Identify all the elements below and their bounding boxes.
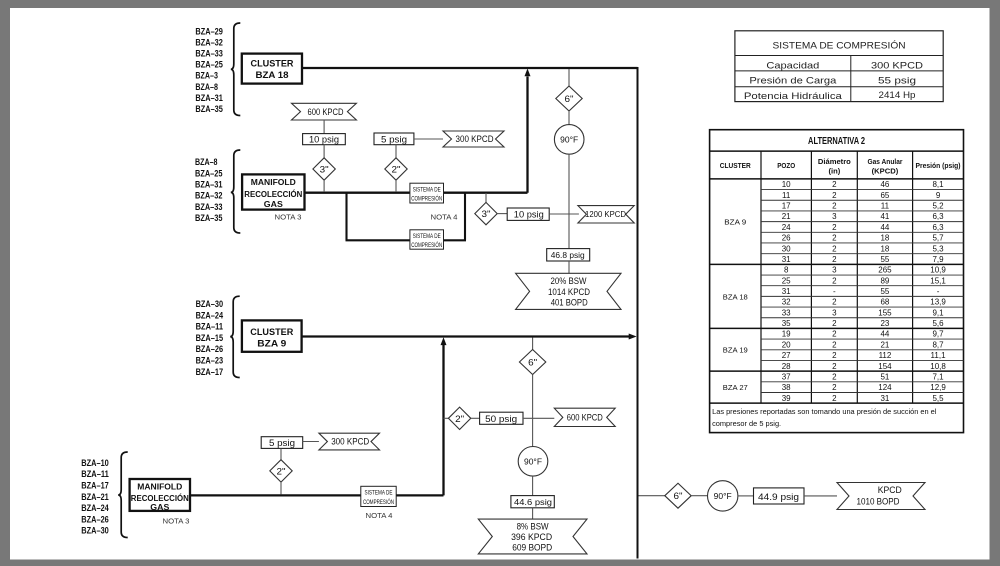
svg-text:32: 32 xyxy=(782,298,791,307)
svg-text:MANIFOLD: MANIFOLD xyxy=(137,482,182,492)
svg-text:44: 44 xyxy=(880,330,889,339)
svg-text:POZO: POZO xyxy=(777,161,795,170)
valve diamond 2 inch (bottom manifold) xyxy=(270,460,292,482)
svg-text:SISTEMA DE COMPRESIÓN: SISTEMA DE COMPRESIÓN xyxy=(773,41,906,52)
brace for well list BZA 18 xyxy=(231,23,241,116)
svg-text:11,1: 11,1 xyxy=(931,351,947,360)
svg-text:24: 24 xyxy=(782,223,791,232)
svg-text:BZA 9: BZA 9 xyxy=(724,218,746,227)
svg-text:BZA–35: BZA–35 xyxy=(195,104,223,115)
svg-text:2: 2 xyxy=(832,319,837,328)
svg-text:44: 44 xyxy=(880,223,889,232)
valve diamond 6 inch (top train) xyxy=(556,86,582,111)
svg-text:2414 Hp: 2414 Hp xyxy=(879,90,916,101)
svg-text:BZA–8: BZA–8 xyxy=(195,157,218,168)
label NOTA 3 under manifold box 1 xyxy=(275,213,302,222)
svg-text:KPCD: KPCD xyxy=(878,485,902,495)
svg-text:2: 2 xyxy=(832,276,837,285)
svg-text:31: 31 xyxy=(782,255,791,264)
svg-text:44.6 psig: 44.6 psig xyxy=(514,497,552,507)
wire: 5 psig box to 2in valve (bottom) xyxy=(280,448,282,459)
svg-text:BZA–3: BZA–3 xyxy=(195,71,218,82)
valve diamond 3 inch (meter run) xyxy=(475,202,497,224)
brace for well list BZA 9 xyxy=(230,296,240,377)
svg-text:BZA–30: BZA–30 xyxy=(196,299,224,310)
svg-text:3: 3 xyxy=(832,266,837,275)
svg-text:CLUSTER: CLUSTER xyxy=(251,58,294,68)
svg-text:50 psig: 50 psig xyxy=(485,414,517,424)
svg-text:600 KPCD: 600 KPCD xyxy=(308,107,344,117)
svg-text:2: 2 xyxy=(832,202,837,211)
svg-text:NOTA 4: NOTA 4 xyxy=(431,212,458,221)
svg-text:5 psig: 5 psig xyxy=(269,438,295,448)
svg-text:2: 2 xyxy=(832,330,837,339)
wire: 2in valve to 50 psig box xyxy=(471,417,480,419)
well list for cluster BZA 18 xyxy=(195,26,223,115)
svg-text:10,9: 10,9 xyxy=(930,266,946,275)
flag: 600 KPCD (bottom) xyxy=(554,408,615,426)
wire: 5 psig box to 300 KPCD flag (bottom) xyxy=(303,441,319,443)
svg-text:401 BOPD: 401 BOPD xyxy=(551,298,588,308)
svg-text:BZA–17: BZA–17 xyxy=(196,367,224,378)
wire: cluster BZA 18 output header xyxy=(302,67,638,69)
svg-text:9,1: 9,1 xyxy=(932,308,944,317)
svg-text:15,1: 15,1 xyxy=(930,276,946,285)
wire: 2in valve to manifold 1 line xyxy=(395,180,397,192)
svg-text:18: 18 xyxy=(880,244,889,253)
well list for manifold recoleccion gas (bottom) xyxy=(81,458,109,537)
svg-text:BZA 19: BZA 19 xyxy=(723,346,748,355)
wire: 600 KPCD flag to 10 psig box xyxy=(323,120,325,134)
svg-text:7,9: 7,9 xyxy=(932,255,944,264)
svg-text:31: 31 xyxy=(782,287,791,296)
wire: 50 psig box to 600 KPCD flag (crosses train) xyxy=(523,417,554,419)
svg-text:SISTEMA DE: SISTEMA DE xyxy=(365,490,393,497)
svg-text:396 KPCD: 396 KPCD xyxy=(511,532,552,542)
svg-text:21: 21 xyxy=(880,340,889,349)
wire: manifold 2 riser to cluster BZA 9 line with arrow xyxy=(441,337,447,495)
svg-text:55 psig: 55 psig xyxy=(878,76,916,87)
svg-text:BZA–8: BZA–8 xyxy=(195,82,218,93)
svg-text:-: - xyxy=(937,287,940,296)
svg-text:BZA–23: BZA–23 xyxy=(196,356,224,367)
svg-text:5,7: 5,7 xyxy=(932,234,944,243)
cluster box BZA 18 xyxy=(242,54,302,84)
svg-text:COMPRESIÓN: COMPRESIÓN xyxy=(411,194,442,203)
svg-text:31: 31 xyxy=(880,394,889,403)
wire: 6in valve to thermometer (outlet) xyxy=(691,495,707,497)
svg-text:Presión de Carga: Presión de Carga xyxy=(749,76,837,87)
svg-text:11: 11 xyxy=(782,191,791,200)
svg-text:90°F: 90°F xyxy=(524,457,542,467)
wire: manifold 1 line to 3in meter xyxy=(485,193,487,203)
svg-text:BZA–26: BZA–26 xyxy=(81,514,109,525)
svg-text:3: 3 xyxy=(832,212,837,221)
svg-text:BZA–25: BZA–25 xyxy=(195,168,223,179)
svg-text:BZA–17: BZA–17 xyxy=(81,481,109,492)
svg-text:10: 10 xyxy=(782,180,791,189)
svg-text:BZA–30: BZA–30 xyxy=(81,526,109,537)
svg-text:5,6: 5,6 xyxy=(932,319,944,328)
svg-text:2: 2 xyxy=(832,372,837,381)
svg-text:90°F: 90°F xyxy=(714,491,732,501)
wire: header to 6in valve (top train) xyxy=(568,69,570,86)
svg-text:20% BSW: 20% BSW xyxy=(551,276,588,286)
svg-text:BZA–11: BZA–11 xyxy=(196,322,224,333)
svg-text:68: 68 xyxy=(880,298,889,307)
svg-text:BZA–32: BZA–32 xyxy=(195,37,223,48)
svg-text:2: 2 xyxy=(832,180,837,189)
svg-text:GAS: GAS xyxy=(150,502,169,512)
svg-text:COMPRESIÓN: COMPRESIÓN xyxy=(411,240,442,249)
svg-text:-: - xyxy=(833,287,836,296)
svg-text:19: 19 xyxy=(782,330,791,339)
svg-text:3": 3" xyxy=(320,165,329,175)
cluster box BZA 9 xyxy=(242,320,302,351)
svg-text:10 psig: 10 psig xyxy=(309,135,339,145)
manifold box 2: MANIFOLD RECOLECCION GAS xyxy=(130,479,190,512)
svg-text:9,7: 9,7 xyxy=(932,330,944,339)
banner: 8% BSW 396 KPCD 609 BOPD xyxy=(478,519,587,554)
svg-text:NOTA 3: NOTA 3 xyxy=(163,516,190,525)
svg-text:38: 38 xyxy=(782,383,791,392)
svg-text:46.8 psig: 46.8 psig xyxy=(551,250,585,260)
svg-text:2: 2 xyxy=(832,223,837,232)
svg-text:BZA–33: BZA–33 xyxy=(195,202,223,213)
svg-text:8% BSW: 8% BSW xyxy=(517,522,550,532)
gauge box: 44.9 psig xyxy=(754,488,805,504)
svg-text:154: 154 xyxy=(878,362,892,371)
svg-text:89: 89 xyxy=(880,276,889,285)
wire: 2in valve to manifold 2 line xyxy=(280,482,282,494)
gauge box: 10 psig (meter run) xyxy=(507,208,549,220)
flag: 300 KPCD (bottom) xyxy=(319,433,380,450)
wire: 10 psig box to 1200 KPCD flag xyxy=(549,213,579,215)
svg-text:55: 55 xyxy=(880,255,889,264)
well list for cluster BZA 9 xyxy=(196,299,224,378)
wire: manifold 2 discharge line xyxy=(190,494,444,496)
svg-text:12,9: 12,9 xyxy=(930,383,946,392)
svg-text:Presión (psig): Presión (psig) xyxy=(916,161,961,170)
wire: thermometer down to 46.8 psig box xyxy=(568,154,570,248)
svg-text:2: 2 xyxy=(832,383,837,392)
svg-text:BZA–35: BZA–35 xyxy=(195,213,223,224)
svg-text:BZA 18: BZA 18 xyxy=(256,70,289,80)
svg-text:35: 35 xyxy=(782,319,791,328)
svg-text:CLUSTER: CLUSTER xyxy=(720,161,751,170)
wire: 10 psig box to 3in valve xyxy=(323,145,325,158)
wire: 44.9 psig box to outlet banner xyxy=(804,495,837,497)
svg-text:10 psig: 10 psig xyxy=(514,210,544,220)
svg-text:13,9: 13,9 xyxy=(930,298,946,307)
svg-text:124: 124 xyxy=(878,383,892,392)
gauge box: 44.6 psig xyxy=(511,496,554,508)
svg-text:11: 11 xyxy=(881,202,890,211)
svg-text:9: 9 xyxy=(936,191,941,200)
svg-text:CLUSTER: CLUSTER xyxy=(250,327,293,337)
valve diamond 2 inch (top) xyxy=(385,158,407,180)
svg-text:BZA–10: BZA–10 xyxy=(81,458,109,469)
svg-text:6": 6" xyxy=(674,491,683,501)
svg-text:MANIFOLD: MANIFOLD xyxy=(251,177,296,187)
svg-text:BZA–33: BZA–33 xyxy=(195,49,223,60)
svg-text:46: 46 xyxy=(880,180,889,189)
svg-text:SISTEMA DE: SISTEMA DE xyxy=(413,233,441,240)
banner: 20% BSW 1014 KPCD 401 BOPD xyxy=(516,273,621,309)
svg-text:27: 27 xyxy=(782,351,791,360)
svg-text:5,3: 5,3 xyxy=(932,244,944,253)
svg-text:90°F: 90°F xyxy=(560,135,578,145)
gauge box: 50 psig xyxy=(480,412,523,424)
wire: compression loop below manifold 1 xyxy=(346,193,467,241)
svg-text:55: 55 xyxy=(880,287,889,296)
svg-text:BZA–31: BZA–31 xyxy=(195,180,223,191)
svg-text:6": 6" xyxy=(528,358,537,368)
thermometer circle 90F (outlet) xyxy=(708,481,738,511)
svg-text:2: 2 xyxy=(832,234,837,243)
label NOTA 4 (top) xyxy=(431,212,458,221)
svg-text:8: 8 xyxy=(784,266,789,275)
wire: main vertical collector line xyxy=(637,67,639,559)
gauge box: 46.8 psig xyxy=(547,249,590,261)
thermometer circle 90F (top train) xyxy=(554,125,584,155)
svg-text:600 KPCD: 600 KPCD xyxy=(567,413,603,423)
wire: collector to 6in valve (outlet train) xyxy=(639,495,666,497)
svg-text:1014 KPCD: 1014 KPCD xyxy=(548,287,590,297)
flag: 300 KPCD (top) xyxy=(443,131,504,147)
svg-text:20: 20 xyxy=(782,340,791,349)
flag: 600 KPCD (top) xyxy=(292,103,357,120)
svg-text:Gas Anular: Gas Anular xyxy=(867,157,902,166)
svg-text:BZA–29: BZA–29 xyxy=(195,26,223,37)
svg-text:Capacidad: Capacidad xyxy=(766,60,819,71)
svg-text:300 KPCD: 300 KPCD xyxy=(871,60,923,71)
svg-text:NOTA 3: NOTA 3 xyxy=(275,213,302,222)
svg-text:300 KPCD: 300 KPCD xyxy=(456,134,494,144)
wire: 6in valve down to thermometer (mid train) xyxy=(532,375,534,447)
gauge box: 5 psig (top) xyxy=(374,133,414,145)
flag: 1200 KPCD xyxy=(578,206,634,223)
svg-text:BZA–31: BZA–31 xyxy=(195,93,223,104)
wire: 5 psig box to 300 KPCD flag xyxy=(414,138,443,140)
box: sistema de compresion 2 xyxy=(410,230,444,249)
wire: cluster BZA 9 line to 6in valve xyxy=(532,338,534,351)
valve diamond 3 inch (top) xyxy=(313,158,335,180)
svg-text:SISTEMA DE: SISTEMA DE xyxy=(413,186,441,193)
label NOTA 4 (bottom) xyxy=(366,511,393,520)
svg-text:37: 37 xyxy=(782,372,791,381)
svg-text:BZA–21: BZA–21 xyxy=(81,492,109,503)
svg-text:2: 2 xyxy=(832,191,837,200)
svg-text:6": 6" xyxy=(565,94,574,104)
wire: thermometer to 44.9 psig box xyxy=(738,495,754,497)
svg-text:2: 2 xyxy=(832,255,837,264)
svg-text:300 KPCD: 300 KPCD xyxy=(331,437,369,447)
svg-text:GAS: GAS xyxy=(264,199,283,209)
svg-text:Potencia Hidráulica: Potencia Hidráulica xyxy=(744,91,843,102)
svg-text:44.9 psig: 44.9 psig xyxy=(758,492,799,502)
svg-text:2": 2" xyxy=(277,466,286,476)
svg-text:RECOLECCIÓN: RECOLECCIÓN xyxy=(244,188,302,199)
svg-text:BZA–15: BZA–15 xyxy=(196,333,224,344)
svg-text:COMPRESIÓN: COMPRESIÓN xyxy=(363,497,394,506)
wire: 5 psig box to 2in valve xyxy=(395,145,397,158)
svg-text:(KPCD): (KPCD) xyxy=(872,167,899,176)
svg-text:NOTA 4: NOTA 4 xyxy=(366,511,393,520)
table: SISTEMA DE COMPRESION summary xyxy=(735,31,943,102)
svg-text:(in): (in) xyxy=(828,167,840,176)
svg-text:2: 2 xyxy=(832,351,837,360)
brace for manifold well list (bottom) xyxy=(118,452,128,538)
wire: 3in valve to manifold 1 line xyxy=(323,180,325,192)
svg-text:Diámetro: Diámetro xyxy=(818,157,851,166)
svg-text:2: 2 xyxy=(832,394,837,403)
svg-text:5,2: 5,2 xyxy=(932,202,944,211)
svg-text:2": 2" xyxy=(392,165,401,175)
svg-text:28: 28 xyxy=(782,362,791,371)
svg-text:2": 2" xyxy=(455,414,464,424)
wire: 6in valve to thermometer xyxy=(568,111,570,125)
well list for manifold recoleccion gas (top) xyxy=(195,157,223,224)
svg-text:2: 2 xyxy=(832,298,837,307)
wire: manifold 1 riser to header with arrow xyxy=(525,69,531,193)
svg-text:Las presiones reportadas son t: Las presiones reportadas son tomando una… xyxy=(712,407,937,416)
svg-text:8,1: 8,1 xyxy=(932,180,944,189)
svg-text:51: 51 xyxy=(880,372,889,381)
svg-text:112: 112 xyxy=(879,351,892,360)
gauge box: 5 psig (bottom) xyxy=(261,437,303,449)
manifold box 1: MANIFOLD RECOLECCION GAS xyxy=(242,174,304,209)
svg-text:2: 2 xyxy=(832,244,837,253)
svg-text:10,8: 10,8 xyxy=(930,362,946,371)
wire: cluster BZA 9 output with arrow into collector xyxy=(302,334,637,340)
svg-text:BZA–24: BZA–24 xyxy=(81,503,109,514)
svg-text:BZA 18: BZA 18 xyxy=(723,292,748,301)
svg-text:BZA–26: BZA–26 xyxy=(196,344,224,355)
svg-text:BZA 9: BZA 9 xyxy=(257,338,286,348)
box: sistema de compresion 1 xyxy=(410,183,444,203)
svg-text:41: 41 xyxy=(880,212,889,221)
banner: KPCD 1010 BOPD (outlet) xyxy=(837,483,925,510)
svg-text:23: 23 xyxy=(880,319,889,328)
svg-text:39: 39 xyxy=(782,394,791,403)
wire: manifold 1 discharge line xyxy=(305,192,528,194)
wire: riser to 2in valve (mid branch) xyxy=(444,417,449,419)
svg-text:25: 25 xyxy=(782,276,791,285)
svg-text:17: 17 xyxy=(782,202,791,211)
svg-text:65: 65 xyxy=(880,191,889,200)
svg-text:BZA–24: BZA–24 xyxy=(196,310,224,321)
wire: thermometer to 44.6 psig box xyxy=(532,476,534,496)
svg-text:265: 265 xyxy=(878,266,892,275)
svg-text:33: 33 xyxy=(782,308,791,317)
svg-text:compresor de 5 psig.: compresor de 5 psig. xyxy=(712,419,781,428)
svg-text:18: 18 xyxy=(880,234,889,243)
svg-text:3: 3 xyxy=(832,308,837,317)
valve diamond 6 inch (mid train) xyxy=(519,350,545,375)
svg-text:2: 2 xyxy=(832,362,837,371)
svg-text:8,7: 8,7 xyxy=(932,340,944,349)
svg-text:5 psig: 5 psig xyxy=(381,134,407,144)
svg-text:BZA–25: BZA–25 xyxy=(195,60,223,71)
table: ALTERNATIVA 2 well data xyxy=(710,130,964,433)
svg-text:ALTERNATIVA 2: ALTERNATIVA 2 xyxy=(808,136,865,147)
gauge box: 10 psig (top) xyxy=(303,134,346,145)
svg-text:1010 BOPD: 1010 BOPD xyxy=(857,497,900,507)
wire: 3in meter to 10 psig box xyxy=(497,213,507,215)
svg-text:155: 155 xyxy=(878,308,892,317)
valve diamond 6 inch (outlet) xyxy=(665,483,691,508)
svg-text:BZA–32: BZA–32 xyxy=(195,191,223,202)
wire: 44.6 psig box to production banner (bottom) xyxy=(532,508,534,519)
svg-text:609 BOPD: 609 BOPD xyxy=(512,543,552,553)
box: sistema de compresion 3 xyxy=(361,486,396,506)
wire: 46.8 psig box to production banner xyxy=(568,261,570,273)
svg-text:6,3: 6,3 xyxy=(932,223,944,232)
svg-text:5,5: 5,5 xyxy=(932,394,944,403)
svg-text:2: 2 xyxy=(832,340,837,349)
svg-text:30: 30 xyxy=(782,244,791,253)
svg-text:BZA 27: BZA 27 xyxy=(723,383,748,392)
svg-text:7,1: 7,1 xyxy=(932,372,944,381)
svg-text:3": 3" xyxy=(482,209,491,219)
label NOTA 3 under manifold box 2 xyxy=(163,516,190,525)
valve diamond 2 inch (mid branch) xyxy=(448,407,470,429)
svg-text:21: 21 xyxy=(782,212,791,221)
thermometer circle 90F (mid train) xyxy=(518,447,548,477)
brace for manifold well list (top) xyxy=(231,150,241,233)
svg-text:BZA–11: BZA–11 xyxy=(81,469,109,480)
svg-text:6,3: 6,3 xyxy=(932,212,944,221)
svg-text:26: 26 xyxy=(782,234,791,243)
svg-text:1200 KPCD: 1200 KPCD xyxy=(585,210,626,219)
